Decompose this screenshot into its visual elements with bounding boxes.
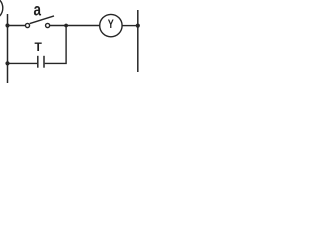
- wire rail to contact T: [8, 62, 38, 64]
- contact T left bar: [37, 56, 39, 68]
- node junction dot right rail: [136, 24, 140, 28]
- node junction dot top-left: [5, 23, 9, 27]
- wire coil Y to right rail: [122, 25, 138, 27]
- right rail wire: [137, 10, 139, 72]
- contact a blade: [30, 16, 54, 24]
- wire contact T up to branch node: [45, 26, 66, 64]
- svg-text:a: a: [33, 1, 41, 20]
- coil Y circle: [100, 14, 122, 36]
- svg-text:Y: Y: [108, 19, 114, 31]
- svg-text:T: T: [35, 40, 43, 54]
- left rail wire: [7, 14, 9, 83]
- contact a left terminal circle: [25, 23, 29, 27]
- node junction dot bottom-left: [5, 61, 9, 65]
- coil fragment (cropped circle of previous rung): [0, 0, 3, 20]
- wire rail to contact a: [8, 25, 26, 27]
- contact T right bar: [43, 56, 45, 68]
- contact a right terminal circle: [46, 23, 50, 27]
- wire contact a to coil Y: [50, 25, 100, 27]
- node junction dot branch: [64, 24, 68, 28]
